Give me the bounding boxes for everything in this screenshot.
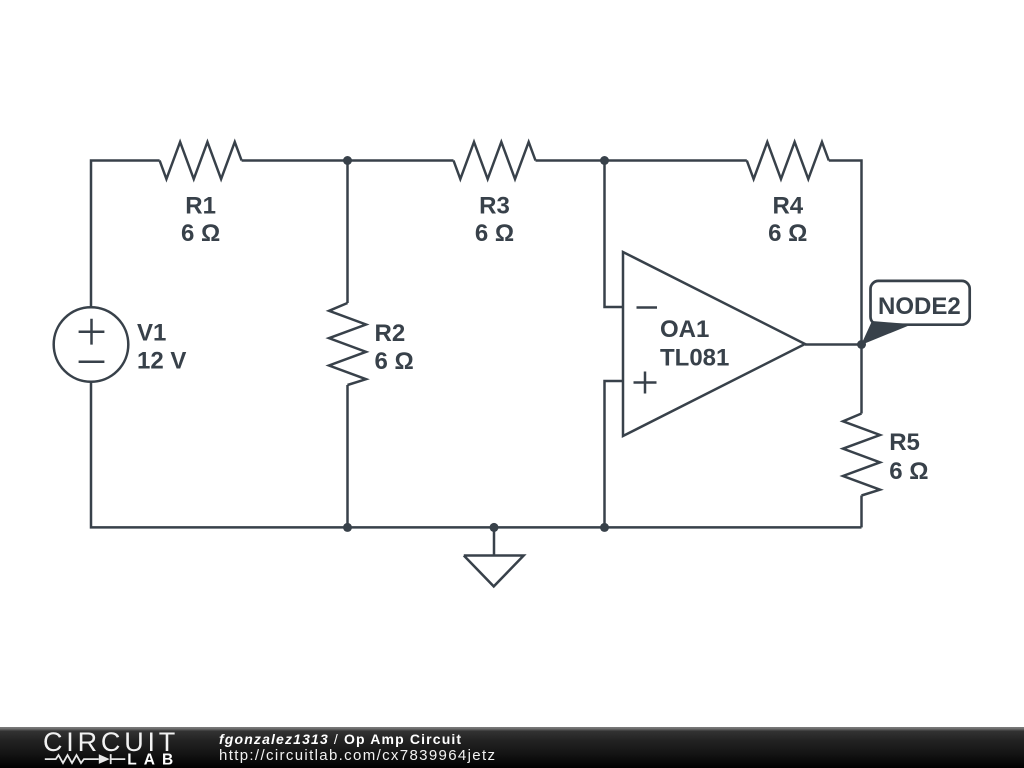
svg-text:R4: R4	[772, 192, 803, 219]
wire R4 to right rail top	[829, 161, 862, 414]
node flag NODE2 box	[871, 281, 970, 325]
svg-text:R5: R5	[889, 429, 920, 456]
wire R1 to R3	[242, 159, 454, 162]
CircuitLab logo	[0, 727, 190, 768]
V1 plus sign	[79, 319, 105, 345]
svg-text:R3: R3	[479, 192, 510, 219]
junction dot NODE2 output	[857, 340, 866, 349]
wire R5 bottom to bottom rail	[860, 496, 863, 528]
wire R3 to R4	[536, 159, 747, 162]
footer text line 2	[219, 747, 496, 764]
footer bar	[0, 727, 1024, 768]
resistor R1	[160, 142, 242, 179]
wire top-left from V1 to R1	[91, 161, 160, 308]
svg-text:12 V: 12 V	[137, 348, 186, 375]
svg-text:6 Ω: 6 Ω	[889, 458, 928, 485]
junction dot R2 bottom	[343, 523, 352, 532]
svg-text:NODE2: NODE2	[878, 293, 961, 320]
svg-text:OA1: OA1	[660, 316, 709, 343]
svg-text:6 Ω: 6 Ω	[181, 220, 220, 247]
footer text line 1	[219, 731, 462, 747]
node flag NODE2 pointer	[861, 321, 912, 345]
V1 minus sign	[79, 360, 105, 363]
resistor R5	[843, 414, 880, 496]
wire op-amp output	[805, 343, 862, 346]
svg-text:6 Ω: 6 Ω	[768, 220, 807, 247]
op-amp minus input sign	[637, 306, 658, 309]
resistor R2	[329, 303, 366, 385]
svg-text:6 Ω: 6 Ω	[475, 220, 514, 247]
wire R2 branch	[346, 161, 349, 304]
junction dot node A (R1-R3-R2)	[343, 156, 352, 165]
svg-text:LAB: LAB	[127, 751, 180, 768]
svg-text:6 Ω: 6 Ω	[375, 348, 414, 375]
wire inverting input	[605, 161, 624, 308]
junction dot ground	[490, 523, 499, 532]
svg-text:R2: R2	[375, 320, 406, 347]
svg-text:TL081: TL081	[660, 345, 729, 372]
op-amp plus input sign	[634, 372, 657, 394]
ground symbol	[464, 527, 524, 586]
wire R2 bottom	[346, 385, 349, 527]
wire bottom rail	[91, 382, 862, 528]
resistor R3	[454, 142, 536, 179]
junction dot node B (R3-R4-opamp minus)	[600, 156, 609, 165]
op-amp OA1 triangle	[623, 252, 805, 436]
voltage source V1	[54, 307, 129, 382]
junction dot opamp plus bottom	[600, 523, 609, 532]
wire non-inverting input	[605, 381, 624, 527]
resistor R4	[747, 142, 829, 179]
svg-text:R1: R1	[185, 192, 216, 219]
svg-text:V1: V1	[137, 319, 166, 346]
